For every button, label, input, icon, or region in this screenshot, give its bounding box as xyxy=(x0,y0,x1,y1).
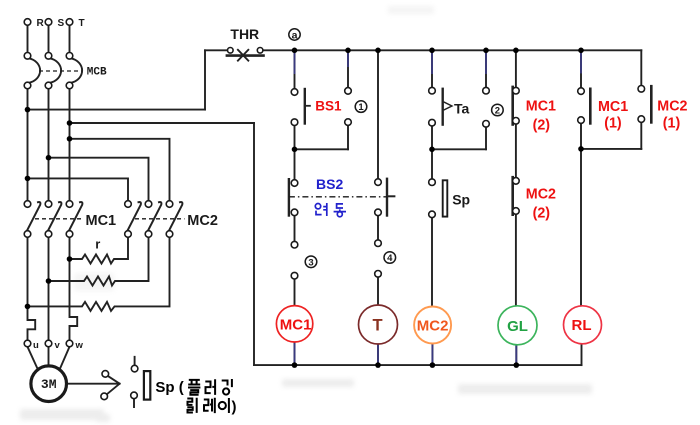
svg-text:MCB: MCB xyxy=(87,67,107,79)
svg-text:MC2: MC2 xyxy=(657,98,687,114)
svg-text:BS2: BS2 xyxy=(316,176,343,192)
svg-text:w: w xyxy=(75,340,84,351)
svg-text:GL: GL xyxy=(507,318,528,335)
svg-text:R: R xyxy=(37,18,45,29)
svg-text:MC1: MC1 xyxy=(86,213,117,229)
svg-text:): ) xyxy=(232,399,237,416)
svg-text:MC2: MC2 xyxy=(417,317,449,334)
svg-text:(2): (2) xyxy=(533,206,551,222)
svg-text:3M: 3M xyxy=(41,377,57,392)
svg-text:r: r xyxy=(95,236,100,251)
svg-text:MC1: MC1 xyxy=(598,99,628,115)
svg-text:(1): (1) xyxy=(663,115,681,131)
svg-text:u: u xyxy=(33,340,39,351)
svg-text:RL: RL xyxy=(572,317,592,334)
svg-text:v: v xyxy=(55,340,61,351)
svg-text:S: S xyxy=(58,18,65,29)
svg-text:Sp: Sp xyxy=(452,192,470,208)
svg-text:Ta: Ta xyxy=(454,101,470,117)
svg-text:MC1: MC1 xyxy=(526,99,556,115)
svg-text:2: 2 xyxy=(495,106,500,117)
svg-text:MC1: MC1 xyxy=(280,316,312,333)
svg-text:BS1: BS1 xyxy=(315,99,342,114)
svg-text:a: a xyxy=(292,29,298,41)
svg-text:1: 1 xyxy=(358,102,364,113)
svg-text:4: 4 xyxy=(387,253,393,264)
svg-text:3: 3 xyxy=(308,257,313,268)
svg-text:Sp (: Sp ( xyxy=(155,379,183,396)
svg-text:MC2: MC2 xyxy=(187,213,218,229)
svg-text:T: T xyxy=(373,316,383,334)
svg-text:(1): (1) xyxy=(604,116,622,132)
svg-text:(2): (2) xyxy=(533,118,551,134)
svg-text:MC2: MC2 xyxy=(526,186,556,202)
svg-text:THR: THR xyxy=(230,26,259,42)
svg-text:T: T xyxy=(79,18,85,29)
